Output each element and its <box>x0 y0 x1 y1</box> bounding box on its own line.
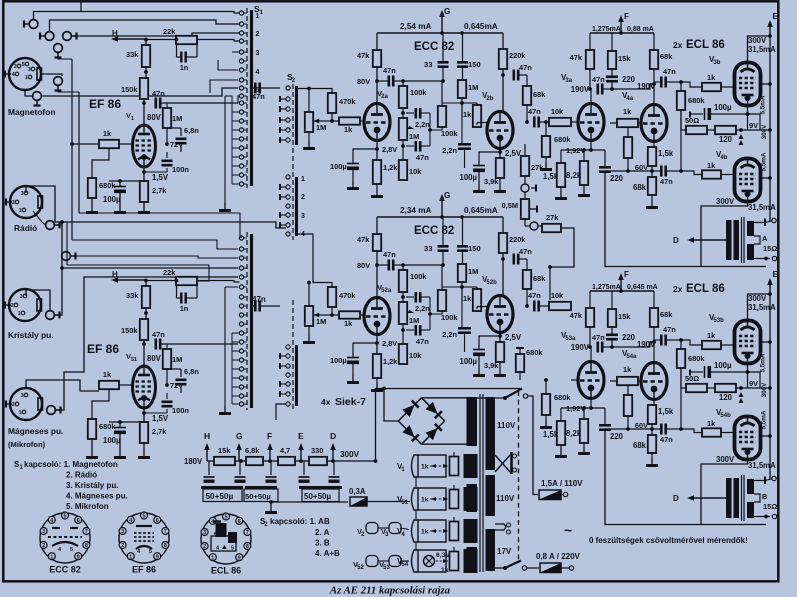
resistor 68k <box>650 308 673 327</box>
switch S1 contact <box>239 155 243 159</box>
svg-text:2: 2 <box>42 543 45 549</box>
wire plate node <box>143 340 145 365</box>
svg-text:300V: 300V <box>340 450 360 459</box>
wire bus x79 <box>78 92 80 213</box>
wire grid V2b <box>476 123 478 126</box>
svg-text:2x: 2x <box>673 284 683 294</box>
svg-text:50+50µ: 50+50µ <box>304 492 331 501</box>
svg-text:7: 7 <box>85 529 88 535</box>
svg-text:47n: 47n <box>383 250 396 259</box>
switch S2 contact T-stub <box>280 224 286 226</box>
wire 680k top to grid bus <box>92 148 109 178</box>
wire to 10k <box>539 121 549 123</box>
potentiometer 1M tone <box>399 118 407 140</box>
capacitor 220 <box>606 333 618 336</box>
wire S1 lower stub bus <box>231 333 233 404</box>
potentiometer 1M <box>305 306 313 326</box>
wire 33k junction right <box>144 312 146 314</box>
svg-text:kapcsoló: 1. Magnetofon: kapcsoló: 1. Magnetofon <box>24 460 118 469</box>
wire radio pin3 to S2 rail <box>26 186 286 228</box>
svg-text:(Mikrofon): (Mikrofon) <box>8 440 46 449</box>
resistor 3,9k <box>484 342 504 370</box>
switch S2 contact <box>286 195 290 199</box>
resistor 1k grid V4a <box>617 119 638 127</box>
switch S1 contact <box>239 295 243 299</box>
capacitor 150 <box>457 61 468 64</box>
wire caps top <box>442 217 444 246</box>
filter bus bar 2 <box>245 486 277 489</box>
wire 220k to plate <box>502 69 504 112</box>
wire cathode line y171 <box>605 170 648 172</box>
capacitor 47n <box>255 83 259 94</box>
wire 300V rail riser <box>341 389 520 462</box>
svg-text:1,5V: 1,5V <box>152 414 169 423</box>
wire 220k top <box>502 217 504 233</box>
wire primary top to E rail <box>744 220 770 222</box>
svg-text:47n: 47n <box>592 75 605 84</box>
svg-text:680k: 680k <box>526 348 543 357</box>
ground <box>646 458 658 467</box>
wire 58,48 to bus x72 <box>58 58 72 60</box>
capacitor 47n <box>598 342 602 353</box>
switch S1 lower wafer bar <box>250 234 253 408</box>
svg-text:72V: 72V <box>170 140 183 149</box>
capacitor 150 <box>457 245 468 248</box>
svg-text:51: 51 <box>131 357 137 363</box>
capacitor 47n <box>661 166 665 177</box>
switch S2 contact T-stub <box>280 119 286 121</box>
svg-text:0,645mA: 0,645mA <box>464 22 498 31</box>
wire 15k top <box>611 33 613 51</box>
wire grounds V2b <box>499 178 501 184</box>
resistor 15k <box>608 309 631 327</box>
electrolytic 100u <box>347 164 359 171</box>
resistor 1,5k <box>557 163 565 187</box>
wire magnetofon jack1 to S1 contact 1 <box>34 12 240 20</box>
ground 2,7k <box>143 202 145 205</box>
capacitor 1n <box>176 281 178 299</box>
output transformer core <box>741 217 743 263</box>
svg-text:0,3A: 0,3A <box>349 487 366 496</box>
svg-text:9V: 9V <box>749 121 758 130</box>
wire pot top <box>308 283 310 307</box>
wire 15k top <box>611 291 613 309</box>
resistor 1M <box>163 108 182 128</box>
svg-text:1,2k: 1,2k <box>383 357 398 366</box>
wire 15k to 220 <box>611 69 613 77</box>
ground <box>371 383 383 392</box>
svg-text:E: E <box>773 12 779 21</box>
svg-text:1: 1 <box>129 554 132 560</box>
switch link dashed <box>518 391 520 560</box>
wire S2 lower bottom <box>276 404 286 420</box>
filter bus bar 3 <box>299 486 342 489</box>
wire 1M stub <box>166 103 168 108</box>
svg-text:47n: 47n <box>663 325 676 334</box>
svg-text:5,5mA: 5,5mA <box>761 152 768 171</box>
svg-text:ECC 82: ECC 82 <box>414 41 454 53</box>
svg-text:kapcsoló: 1. AB: kapcsoló: 1. AB <box>270 517 330 526</box>
wire 680k to 50ohm <box>681 110 686 130</box>
wire V3b plate to E rail <box>761 341 770 343</box>
svg-text:D: D <box>673 236 679 245</box>
svg-text:1k: 1k <box>421 529 429 536</box>
ground <box>265 505 277 514</box>
switch S1 contact <box>239 146 243 150</box>
svg-text:15Ω: 15Ω <box>763 502 777 511</box>
wire S1 pole2 steps <box>238 96 239 103</box>
wire 47n to ECC <box>377 80 389 82</box>
resistor 330 divider <box>309 457 327 465</box>
svg-text:53: 53 <box>383 565 390 571</box>
capacitor 47n bridge <box>406 329 414 331</box>
resistor 1k <box>99 129 119 148</box>
wire 1k top <box>476 287 478 289</box>
resistor 2,7k <box>140 422 167 443</box>
switch S1 contact <box>239 247 243 251</box>
wire coupling to switch <box>167 343 238 345</box>
svg-text:2: 2 <box>256 31 260 38</box>
wire grid <box>119 143 133 145</box>
wire 1M bottom <box>461 282 463 302</box>
ground <box>114 205 126 214</box>
svg-text:4,7: 4,7 <box>280 446 290 455</box>
potentiometer 1M tone <box>399 302 407 324</box>
resistor input chain <box>399 270 407 292</box>
wire V3b cathode <box>747 106 749 130</box>
resistor 10k <box>399 160 407 180</box>
svg-text:33: 33 <box>424 60 432 69</box>
wire V4b cathode to box <box>701 460 748 525</box>
svg-text:3: 3 <box>21 191 24 197</box>
switch S2 contact T-stub <box>280 186 286 188</box>
switch S1 contact <box>239 376 243 380</box>
wire pot top <box>453 517 455 522</box>
svg-text:680k: 680k <box>554 135 571 144</box>
svg-text:50+50µ: 50+50µ <box>245 492 271 501</box>
wire kristaly pin3 <box>26 290 50 311</box>
svg-text:2: 2 <box>12 200 15 206</box>
svg-text:5: 5 <box>231 546 234 552</box>
ground filter <box>270 502 272 506</box>
wire to fuse 1,5A <box>528 396 539 495</box>
wire y103 <box>442 286 462 288</box>
wire 680k <box>545 122 547 136</box>
switch S1 contact <box>239 101 243 105</box>
resistor 6,8k divider <box>246 457 263 465</box>
switch S2 contact T-stub <box>280 108 286 110</box>
switch S2 contact <box>286 354 290 358</box>
ground <box>347 375 359 384</box>
ground channel2 top <box>651 452 653 455</box>
wire y103 <box>442 102 462 104</box>
switch S1 contact <box>239 31 243 35</box>
svg-text:1k: 1k <box>344 125 353 134</box>
svg-text:51: 51 <box>401 500 408 506</box>
ground <box>86 205 98 214</box>
svg-text:1,92V: 1,92V <box>566 404 585 413</box>
resistor 47k <box>586 50 594 69</box>
wire 1,2k ground <box>376 184 378 189</box>
svg-text:4: 4 <box>50 518 53 524</box>
svg-text:1,5k: 1,5k <box>658 149 674 158</box>
svg-text:17V: 17V <box>497 547 512 556</box>
svg-text:0,645mA: 0,645mA <box>464 206 498 215</box>
svg-text:5. Mikrofon: 5. Mikrofon <box>66 502 109 511</box>
switch S1 contact <box>239 275 243 279</box>
switch S2 contact T-stub <box>280 98 286 100</box>
resistor 47k plate <box>373 234 381 251</box>
node H arrow <box>117 279 146 281</box>
wire 470k to wiper line <box>331 113 333 121</box>
output transformer primary <box>726 220 732 260</box>
ground <box>555 191 567 200</box>
svg-text:2: 2 <box>121 543 124 549</box>
svg-text:6,3V: 6,3V <box>436 552 450 559</box>
wire caps bottom <box>442 67 444 81</box>
wire S1 contact stub <box>232 120 239 122</box>
svg-text:4b: 4b <box>720 155 727 161</box>
wire 47n to 680k bottom <box>666 170 681 172</box>
svg-text:8,2k: 8,2k <box>566 171 582 180</box>
svg-text:G: G <box>444 7 450 16</box>
resistor 1k <box>99 370 119 389</box>
diode D2 <box>426 402 438 414</box>
box 50+50u label 2 <box>244 489 278 502</box>
resistor 1,5k <box>557 421 565 445</box>
capacitor 2,2n bridge <box>406 112 414 114</box>
capacitor 220 cathode <box>599 424 611 427</box>
wire 47n right <box>602 346 612 348</box>
switch S2 contact T-stub <box>280 129 286 131</box>
ground <box>540 420 552 429</box>
svg-text:180V: 180V <box>184 457 203 466</box>
svg-text:3. Kristály pu.: 3. Kristály pu. <box>66 481 118 490</box>
svg-text:31,5mA: 31,5mA <box>748 203 776 212</box>
svg-text:1k: 1k <box>463 110 472 119</box>
wire 1,5k <box>560 150 562 163</box>
svg-text:100µ: 100µ <box>330 356 347 365</box>
wire chain <box>402 265 404 270</box>
svg-text:1,2k: 1,2k <box>383 163 398 172</box>
svg-text:15k: 15k <box>618 312 631 321</box>
wire S1 contact stub <box>232 359 239 361</box>
svg-text:ECL 86: ECL 86 <box>211 566 241 576</box>
svg-text:2: 2 <box>11 303 14 309</box>
svg-text:1M: 1M <box>316 123 326 132</box>
svg-text:Rádió: Rádió <box>14 223 37 233</box>
svg-text:0,645 mA: 0,645 mA <box>627 284 658 291</box>
svg-text:3: 3 <box>42 529 45 535</box>
hum potentiometer 51 <box>450 490 459 509</box>
svg-text:1k: 1k <box>623 365 632 374</box>
svg-text:190V: 190V <box>571 343 590 352</box>
svg-text:3: 3 <box>256 50 260 57</box>
resistor 68k <box>523 86 546 105</box>
wire secondary bottom terminal <box>754 258 770 260</box>
diode D3 <box>402 425 414 437</box>
wire bus x62 to S1 lower <box>72 240 238 249</box>
svg-text:ECL 86: ECL 86 <box>686 283 725 295</box>
wire 33k to 150k <box>145 67 147 78</box>
svg-text:1k: 1k <box>623 107 632 116</box>
wire 8,2k <box>583 408 585 419</box>
wire supply rail F <box>590 32 654 34</box>
capacitor 2,2n bridge <box>406 296 414 298</box>
switch S2 contact <box>286 185 290 189</box>
svg-text:D: D <box>330 431 336 441</box>
svg-text:52: 52 <box>357 565 364 571</box>
svg-text:1,275mA: 1,275mA <box>592 284 621 291</box>
wire 68k to coupling <box>526 289 528 306</box>
svg-text:110V: 110V <box>497 421 516 430</box>
svg-text:72V: 72V <box>170 381 183 390</box>
wire B+ to bridge corner <box>384 389 398 422</box>
terminal circle upper <box>521 184 529 192</box>
svg-text:150k: 150k <box>121 85 138 94</box>
terminal jack <box>63 32 77 41</box>
svg-text:190V: 190V <box>571 85 590 94</box>
svg-text:80V: 80V <box>357 77 370 86</box>
svg-text:680k: 680k <box>99 422 116 431</box>
wire S1 contact stub <box>232 395 239 397</box>
wire 680k top to grid bus <box>92 389 109 419</box>
resistor 120 <box>715 384 736 392</box>
resistor 47k plate <box>373 50 381 67</box>
svg-text:2,2n: 2,2n <box>442 146 457 155</box>
svg-text:1k: 1k <box>103 370 112 379</box>
terminal jack <box>46 221 60 230</box>
heater core bar 4 <box>464 519 478 543</box>
input terminal <box>5 401 7 408</box>
wire S1 lower contacts bus <box>225 286 238 288</box>
svg-text:5: 5 <box>225 515 228 521</box>
switch S1 contact <box>239 322 243 326</box>
switch S1 contact <box>239 78 243 82</box>
svg-text:1,92V: 1,92V <box>566 146 585 155</box>
wire V4b plate to E rail <box>761 177 770 179</box>
wire 47n out <box>654 339 661 341</box>
switch S1 lower wafer dashed <box>246 232 248 410</box>
capacitor 6,8n <box>176 138 187 141</box>
switch S1 contact <box>239 313 243 317</box>
switch S2 section2 bar <box>295 177 298 236</box>
wire 33k junction right <box>144 71 146 73</box>
switch S1 contact <box>239 119 243 123</box>
svg-text:52b: 52b <box>486 280 497 286</box>
wire bus x72 <box>71 59 73 240</box>
wire cathode to 100u <box>353 343 377 357</box>
svg-text:1: 1 <box>50 554 53 560</box>
wire S1 contact stub <box>232 386 239 388</box>
capacitor 47n bridge <box>406 145 414 147</box>
switch S1 contact <box>239 68 243 72</box>
svg-text:120: 120 <box>719 393 733 402</box>
svg-text:0 feszültségek csővoltmérővel: 0 feszültségek csővoltmérővel mérendők! <box>589 536 748 545</box>
electrolytic filter cap 50+50u <box>333 461 335 475</box>
wire V3b plate to E rail <box>761 83 770 85</box>
svg-text:300V: 300V <box>716 455 735 464</box>
svg-text:300V: 300V <box>761 382 768 398</box>
svg-text:300V: 300V <box>748 36 767 45</box>
wire 47n out <box>654 81 661 83</box>
svg-text:53b: 53b <box>713 318 724 324</box>
capacitor 47n <box>156 98 160 109</box>
wire H to switch <box>197 281 239 283</box>
svg-text:47n: 47n <box>592 333 605 342</box>
wire jack3 to S1 contact 3 <box>72 33 240 36</box>
svg-text:2,2n: 2,2n <box>415 304 430 313</box>
wire secondary tap <box>754 494 760 502</box>
wire 680k top <box>680 82 682 91</box>
node E arrow <box>769 285 771 294</box>
svg-text:E: E <box>298 431 304 441</box>
svg-text:4x: 4x <box>321 397 331 407</box>
svg-text:5: 5 <box>22 62 25 68</box>
svg-text:2. Rádió: 2. Rádió <box>66 471 97 480</box>
ground 100u <box>119 193 121 205</box>
wire 58,81 to bus x79 <box>58 91 79 93</box>
ground <box>303 141 315 150</box>
wire H stub <box>207 460 209 462</box>
svg-text:47n: 47n <box>528 107 541 116</box>
wire to fuse 0,8A <box>527 567 540 569</box>
svg-text:A: A <box>762 234 768 243</box>
box 50+50u label 1 <box>203 489 242 502</box>
heater core bar 1 <box>464 454 478 478</box>
svg-text:3a: 3a <box>565 78 572 84</box>
switch S2 lower bar <box>295 345 298 406</box>
svg-text:68k: 68k <box>660 310 673 319</box>
wire cathode <box>376 335 378 355</box>
switch S1 contact <box>239 94 243 98</box>
wire 1,5k <box>560 408 562 421</box>
switch S2 lower dashed wafer <box>292 300 294 410</box>
node F arrow <box>620 21 622 33</box>
output pentode 54b <box>735 416 761 460</box>
triode V2b <box>487 112 513 149</box>
wire S1 contact stub <box>232 174 239 176</box>
wire pot top <box>453 485 455 490</box>
resistor 470k <box>328 93 336 113</box>
wire 220k top <box>502 33 504 49</box>
resistor 1,5k <box>648 405 656 424</box>
svg-text:5: 5 <box>149 549 152 555</box>
wire fuse right terminal 2 <box>561 567 569 569</box>
wire 9V junction <box>736 387 770 389</box>
wire fuse to heater row <box>367 501 410 503</box>
svg-text:2. A: 2. A <box>315 528 330 537</box>
resistor 15k divider <box>214 457 235 465</box>
electrolytic filter cap 50+50u <box>239 461 241 475</box>
wire 68k ground <box>651 195 653 200</box>
resistor 150k <box>121 78 148 99</box>
wire grid 10k <box>571 379 578 381</box>
ground <box>219 203 231 212</box>
wire 680k cathodyne <box>627 386 629 395</box>
svg-text:5,5mA: 5,5mA <box>761 410 768 429</box>
wire 220k to plate <box>502 253 504 296</box>
wire plate node V3a <box>589 327 591 347</box>
wire primary top to E rail <box>744 478 770 480</box>
wire magnetofon pin to bus <box>41 74 62 76</box>
wire S1 stub bus <box>231 112 233 184</box>
svg-text:4. Mágneses pu.: 4. Mágneses pu. <box>66 492 128 501</box>
wire chain 2 <box>402 324 404 344</box>
wire plate to 47k <box>376 67 378 104</box>
heater core bar 51 <box>464 487 478 511</box>
capacitor 47n <box>661 335 665 346</box>
